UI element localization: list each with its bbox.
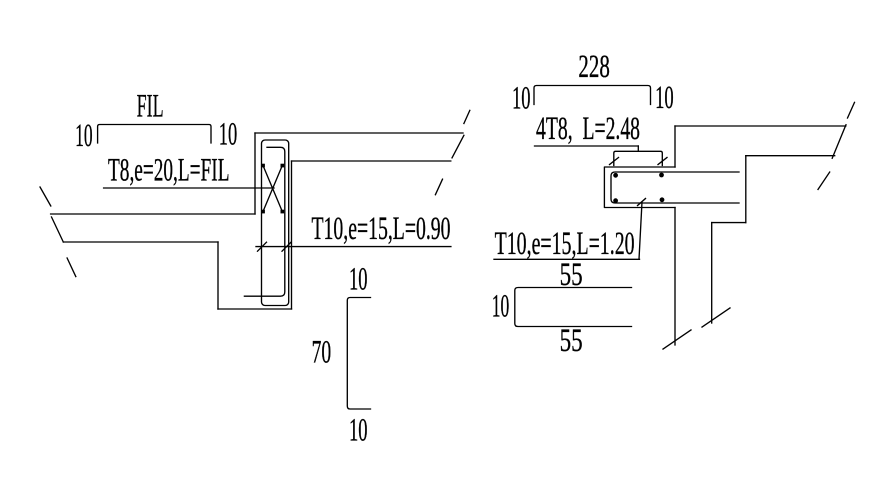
svg-text:55: 55 [560,257,583,293]
svg-text:10: 10 [349,413,368,449]
svg-text:10: 10 [349,262,368,298]
step horizontal (right detail) [712,222,746,224]
svg-text:10: 10 [492,289,510,325]
upper slab bottom line (left detail) [292,160,451,162]
svg-text:FIL: FIL [137,89,164,125]
leader underline T8 label [104,187,274,189]
tie dot bottom-right [281,210,285,214]
stirrup in wall (left detail) [262,140,289,306]
beam stirrup (right detail) [611,172,739,203]
leader T10 right with arrow tick [638,199,646,260]
wall right vertical (left detail) [291,161,293,309]
svg-text:T10,e=15,L=0.90: T10,e=15,L=0.90 [312,211,451,247]
step vertical (right detail) [745,156,747,223]
upper slab top line (left detail) [255,132,463,134]
dim bracket 228 (right detail) [534,86,651,105]
column right vertical (right detail) [711,223,713,323]
rebar dot beam bottom-left [613,198,618,203]
svg-text:228: 228 [578,49,610,85]
svg-text:4T8, L=2.48: 4T8, L=2.48 [536,111,640,147]
svg-text:10: 10 [655,80,674,116]
cross tie X (left detail) [263,166,282,212]
svg-text:10: 10 [219,117,238,153]
svg-text:10: 10 [75,118,93,154]
break line right (left detail) [435,110,469,194]
beam outline (right detail) [604,167,675,208]
rebar dot beam top-right [659,173,664,178]
svg-text:55: 55 [560,323,583,359]
leader underline T10 right label [494,258,640,260]
lower slab top line (left detail) [51,213,255,215]
lower slab bottom line (left detail) [63,241,218,243]
leader underline 4T8 label [535,145,639,147]
tie dot bottom-left [261,210,265,214]
svg-text:70: 70 [312,335,332,371]
rebar dot beam top-left [613,173,618,178]
break slash column left leg [663,330,691,349]
column left vertical lower (right detail) [674,208,676,346]
upper slab bottom line (right detail) [746,155,835,157]
svg-text:T8,e=20,L=FIL: T8,e=20,L=FIL [108,153,230,189]
column left vertical upper (right detail) [674,126,676,167]
svg-text:10: 10 [512,81,531,117]
break line left (left detail) [40,187,76,277]
dim bracket FIL [98,125,211,144]
wall bottom line (left detail) [218,308,292,310]
tie dot top-right [281,164,285,168]
slab step vertical (left detail) [217,242,219,309]
top bar 4T8 with end hooks [614,151,663,165]
vertical bar with hooks (left detail) [244,147,284,296]
wall left vertical (left detail) [254,133,256,214]
dim bracket 70 [347,298,370,410]
leader connector 4T8 [637,146,639,151]
break slash column right leg [702,308,730,327]
upper slab top line (right detail) [675,125,846,127]
dim line T10 with oblique ticks [256,242,451,251]
tick marks on 4T8 bar ends [610,158,668,165]
tie dot top-left [261,164,265,168]
dim bracket 55/10/55 [515,288,632,327]
rebar dot beam bottom-right [660,197,665,202]
break line right slab (right detail) [818,102,855,189]
